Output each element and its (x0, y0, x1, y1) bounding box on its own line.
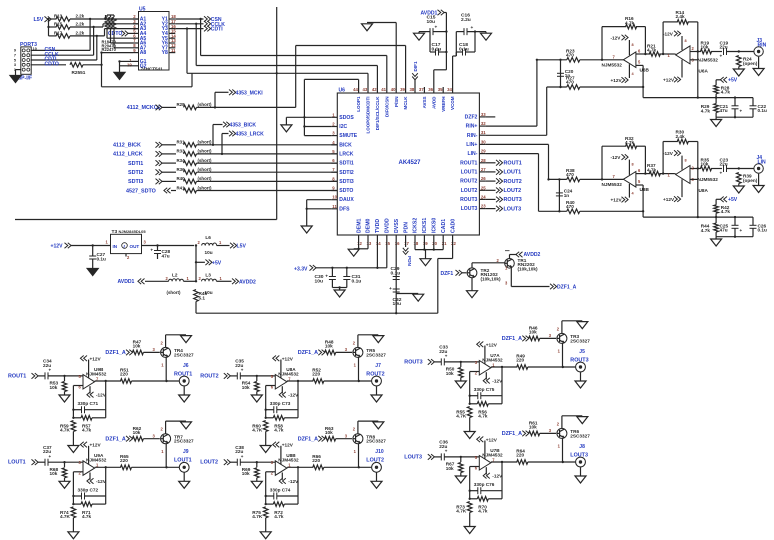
svg-text:LOUT2: LOUT2 (200, 460, 218, 466)
svg-text:15: 15 (385, 241, 390, 246)
svg-text:4.7k: 4.7k (701, 228, 711, 233)
svg-text:ROUT3: ROUT3 (504, 197, 522, 203)
svg-text:+5V: +5V (728, 78, 738, 84)
svg-text:DZF1_A: DZF1_A (105, 350, 125, 356)
svg-text:DZF1_A: DZF1_A (557, 285, 577, 291)
svg-text:(short): (short) (198, 149, 212, 154)
svg-text:LRCK: LRCK (339, 152, 353, 158)
svg-text:22u: 22u (720, 162, 728, 167)
svg-text:(short): (short) (198, 167, 212, 172)
svg-text:RIN: RIN (758, 42, 767, 48)
svg-text:L6: L6 (205, 235, 211, 240)
svg-text:10k: 10k (50, 385, 58, 390)
svg-text:VREFH: VREFH (441, 97, 446, 112)
svg-text:+: + (49, 454, 52, 459)
svg-text:(open): (open) (743, 61, 758, 66)
svg-text:+: + (445, 449, 448, 454)
svg-text:+12V: +12V (282, 443, 294, 448)
svg-text:22u: 22u (43, 449, 51, 454)
svg-text:2.2u: 2.2u (461, 17, 471, 23)
svg-text:P/SN: P/SN (394, 97, 399, 108)
svg-text:IN: IN (113, 244, 118, 249)
svg-text:4112_LRCK: 4112_LRCK (113, 152, 143, 158)
svg-text:22u: 22u (439, 349, 447, 354)
svg-text:U6B: U6B (640, 68, 650, 73)
svg-text:38: 38 (410, 87, 415, 92)
svg-text:R22470: R22470 (102, 47, 117, 52)
svg-text:0.1u: 0.1u (97, 257, 107, 262)
svg-text:LOUT1: LOUT1 (461, 170, 478, 176)
svg-text:4.7k: 4.7k (478, 509, 488, 514)
svg-text:3: 3 (14, 63, 16, 67)
svg-text:47u: 47u (720, 108, 728, 113)
svg-text:10k: 10k (242, 385, 250, 390)
svg-text:LOUT2: LOUT2 (504, 188, 522, 194)
svg-text:0.1u: 0.1u (352, 278, 362, 284)
svg-text:10k: 10k (242, 471, 250, 476)
svg-text:22u: 22u (235, 449, 243, 454)
svg-text:SDTI2: SDTI2 (128, 170, 143, 176)
svg-text:8: 8 (632, 43, 634, 47)
svg-text:+3.3V: +3.3V (294, 267, 308, 273)
svg-text:+12V: +12V (90, 356, 102, 361)
svg-text:220: 220 (516, 358, 524, 363)
svg-text:LIN+: LIN+ (466, 142, 477, 148)
svg-text:+12V: +12V (486, 437, 498, 442)
svg-text:LOUT3: LOUT3 (461, 206, 478, 212)
svg-text:ROUT2: ROUT2 (366, 371, 384, 377)
svg-text:43: 43 (363, 87, 368, 92)
svg-text:DZF1_A: DZF1_A (298, 350, 318, 356)
svg-text:CDTI: CDTI (211, 27, 223, 33)
svg-text:G2: G2 (140, 63, 147, 69)
svg-text:LOOP0/SDMCDTI: LOOP0/SDMCDTI (366, 97, 371, 134)
svg-text:AVDD: AVDD (431, 96, 436, 109)
svg-text:12: 12 (357, 241, 362, 246)
svg-text:LOUT1: LOUT1 (8, 460, 26, 466)
svg-text:+: + (241, 368, 244, 373)
svg-text:26: 26 (481, 176, 486, 181)
svg-text:(short): (short) (198, 102, 212, 107)
svg-text:8: 8 (632, 163, 634, 167)
svg-text:10k: 10k (325, 430, 333, 435)
svg-text:PDN: PDN (403, 222, 409, 233)
svg-text:10k: 10k (701, 45, 709, 50)
svg-text:2SC3327: 2SC3327 (174, 352, 194, 357)
svg-text:+: + (241, 454, 244, 459)
svg-text:4.7K: 4.7K (252, 428, 263, 433)
svg-text:10k: 10k (701, 162, 709, 167)
svg-text:330p C76: 330p C76 (474, 482, 495, 487)
svg-text:ICKS1: ICKS1 (422, 218, 428, 233)
svg-text:29: 29 (481, 149, 486, 154)
svg-text:8: 8 (685, 159, 687, 163)
svg-text:2SC3327: 2SC3327 (174, 439, 194, 444)
svg-text:10k: 10k (446, 466, 454, 471)
svg-text:+: + (49, 368, 52, 373)
svg-text:19: 19 (423, 241, 428, 246)
svg-text:14: 14 (376, 241, 381, 246)
svg-text:+: + (389, 286, 392, 291)
svg-text:22: 22 (451, 241, 456, 246)
svg-text:+: + (720, 171, 723, 176)
svg-text:+12V: +12V (282, 356, 294, 361)
svg-text:4353_LRCK: 4353_LRCK (236, 132, 265, 138)
svg-text:330p C75: 330p C75 (474, 387, 495, 392)
svg-text:J: J (123, 244, 125, 248)
svg-text:4.7k: 4.7k (478, 414, 488, 419)
svg-text:330p C73: 330p C73 (270, 401, 291, 406)
svg-text:2.4k: 2.4k (676, 134, 686, 139)
svg-text:2SC3327: 2SC3327 (366, 439, 386, 444)
svg-text:U6A: U6A (699, 69, 709, 74)
svg-text:4.7K: 4.7K (252, 514, 263, 519)
svg-text:+12V: +12V (486, 342, 498, 347)
svg-text:220: 220 (120, 372, 128, 377)
svg-text:VCOM: VCOM (450, 96, 455, 110)
svg-text:220: 220 (516, 453, 524, 458)
svg-text:10u: 10u (205, 250, 213, 255)
svg-text:ROUT1: ROUT1 (174, 371, 192, 377)
svg-text:10k: 10k (133, 430, 141, 435)
svg-text:9: 9 (14, 49, 16, 53)
svg-text:4.7k: 4.7k (274, 428, 284, 433)
svg-text:-12V: -12V (611, 155, 622, 160)
svg-text:16: 16 (395, 241, 400, 246)
svg-text:4112_BICK: 4112_BICK (113, 143, 141, 149)
svg-text:LIN: LIN (758, 159, 767, 165)
svg-text:-12V: -12V (663, 151, 674, 156)
svg-text:DEM1: DEM1 (356, 218, 362, 233)
svg-text:10u: 10u (427, 19, 435, 25)
svg-text:10k: 10k (529, 425, 537, 430)
svg-text:ROUT2: ROUT2 (504, 179, 522, 185)
svg-text:+: + (445, 354, 448, 359)
svg-text:U8B: U8B (640, 187, 650, 192)
svg-text:DZF1_A: DZF1_A (298, 437, 318, 443)
svg-text:ROUT1: ROUT1 (8, 373, 26, 379)
svg-text:44: 44 (353, 87, 358, 92)
svg-text:U6: U6 (339, 88, 346, 94)
svg-text:ROUT3: ROUT3 (570, 357, 588, 363)
svg-text:CDTO: CDTO (45, 62, 59, 68)
svg-text:DVDD: DVDD (385, 218, 391, 233)
svg-text:DEM0: DEM0 (366, 218, 372, 233)
svg-text:-12V: -12V (611, 36, 622, 41)
svg-text:DZF1_A: DZF1_A (105, 437, 125, 443)
svg-text:0.1u: 0.1u (432, 47, 442, 53)
svg-text:(short): (short) (198, 176, 212, 181)
svg-text:4.7k: 4.7k (274, 514, 284, 519)
svg-text:SDTI3: SDTI3 (339, 179, 354, 185)
svg-text:J9: J9 (183, 449, 189, 455)
svg-text:0.1u: 0.1u (758, 108, 768, 113)
svg-text:PDN: PDN (407, 256, 412, 267)
svg-text:L5V: L5V (237, 244, 247, 250)
svg-text:42: 42 (372, 87, 377, 92)
svg-text:NJM5532: NJM5532 (602, 63, 623, 68)
svg-text:4.7k: 4.7k (721, 90, 731, 95)
svg-text:LOUT3: LOUT3 (504, 206, 522, 212)
svg-text:LOOP1: LOOP1 (356, 96, 361, 112)
svg-text:4.7K: 4.7K (456, 509, 467, 514)
svg-text:A8: A8 (140, 50, 147, 56)
svg-text:220: 220 (312, 372, 320, 377)
svg-text:(open): (open) (743, 178, 758, 183)
svg-text:+12V: +12V (51, 244, 64, 250)
svg-text:CAD1: CAD1 (441, 219, 447, 233)
svg-text:LOUT2: LOUT2 (461, 188, 478, 194)
svg-text:AK4527: AK4527 (399, 160, 422, 166)
svg-text:J5: J5 (579, 349, 585, 355)
svg-text:1n: 1n (564, 193, 570, 198)
svg-text:4.7k: 4.7k (721, 209, 731, 214)
svg-text:DZF1: DZF1 (441, 271, 454, 277)
svg-text:+12V: +12V (663, 197, 675, 202)
svg-text:31: 31 (481, 130, 486, 135)
svg-text:470: 470 (566, 172, 574, 177)
svg-text:28: 28 (481, 158, 486, 163)
svg-text:(short): (short) (198, 185, 212, 190)
svg-text:LOUT2: LOUT2 (366, 458, 384, 464)
svg-text:NJM5532: NJM5532 (698, 177, 719, 182)
svg-text:BICK: BICK (339, 142, 352, 148)
svg-text:NJM2845DL05: NJM2845DL05 (119, 229, 147, 234)
svg-text:4.7K: 4.7K (60, 428, 71, 433)
svg-text:+: + (471, 25, 474, 30)
svg-text:+: + (150, 248, 153, 253)
svg-text:40: 40 (391, 87, 396, 92)
svg-text:36: 36 (428, 87, 433, 92)
svg-text:AVSS: AVSS (422, 97, 427, 109)
svg-text:R13: R13 (54, 14, 63, 19)
svg-text:330p C74: 330p C74 (270, 487, 291, 492)
svg-text:10k: 10k (325, 344, 333, 349)
svg-text:+12V: +12V (90, 443, 102, 448)
svg-text:25: 25 (481, 185, 486, 190)
svg-text:SMUTE: SMUTE (339, 133, 357, 139)
svg-text:27: 27 (481, 167, 486, 172)
svg-text:4.7k: 4.7k (82, 514, 92, 519)
svg-text:22u: 22u (439, 444, 447, 449)
svg-text:OUT: OUT (130, 244, 140, 249)
svg-text:7: 7 (14, 54, 16, 58)
svg-text:11: 11 (332, 204, 337, 209)
svg-text:J8: J8 (579, 444, 585, 450)
svg-text:I2C: I2C (339, 124, 347, 130)
svg-text:DIF1/SCL/CCLK: DIF1/SCL/CCLK (375, 96, 380, 131)
svg-text:AVDD2: AVDD2 (524, 252, 541, 258)
svg-text:220: 220 (120, 458, 128, 463)
svg-text:4.7k: 4.7k (82, 428, 92, 433)
svg-text:DZF2: DZF2 (465, 115, 478, 121)
svg-text:SDTO: SDTO (339, 188, 353, 194)
svg-text:+12V: +12V (611, 78, 623, 83)
svg-text:4.7k: 4.7k (647, 48, 657, 53)
svg-text:10k: 10k (50, 471, 58, 476)
svg-text:U8A: U8A (699, 188, 709, 193)
svg-text:-12V: -12V (663, 32, 674, 37)
svg-text:17: 17 (404, 241, 409, 246)
svg-text:0.1u: 0.1u (459, 47, 469, 53)
svg-text:NJM5532: NJM5532 (698, 58, 719, 63)
svg-text:LOUT3: LOUT3 (404, 454, 422, 460)
svg-text:220: 220 (312, 458, 320, 463)
svg-text:CAD0: CAD0 (450, 219, 456, 233)
svg-text:41: 41 (381, 87, 386, 92)
svg-text:330p C71: 330p C71 (78, 401, 99, 406)
svg-text:+: + (740, 228, 743, 233)
svg-text:+12V: +12V (611, 198, 623, 203)
svg-text:37: 37 (419, 87, 424, 92)
svg-text:(10k,10k): (10k,10k) (518, 267, 539, 272)
svg-text:20: 20 (432, 241, 437, 246)
svg-text:5: 5 (14, 58, 16, 62)
svg-text:U5: U5 (139, 7, 146, 13)
svg-text:21: 21 (442, 241, 447, 246)
svg-text:4.7K: 4.7K (456, 414, 467, 419)
svg-text:30: 30 (481, 139, 486, 144)
svg-text:DIF1: DIF1 (413, 61, 418, 72)
svg-text:R17: R17 (54, 31, 63, 36)
svg-text:ROUT3: ROUT3 (460, 197, 477, 203)
svg-text:T3: T3 (112, 229, 118, 235)
svg-text:+: + (325, 274, 328, 279)
svg-text:DZF1_A: DZF1_A (502, 336, 522, 342)
svg-text:+5V: +5V (728, 197, 738, 203)
svg-text:RIN-: RIN- (467, 133, 478, 139)
svg-text:(short): (short) (198, 158, 212, 163)
svg-text:AVDD1: AVDD1 (118, 279, 135, 285)
svg-text:18: 18 (414, 241, 419, 246)
svg-text:2SC3327: 2SC3327 (366, 352, 386, 357)
svg-text:NJM5532: NJM5532 (602, 182, 623, 187)
svg-text:+5V: +5V (212, 260, 222, 266)
svg-text:22u: 22u (720, 45, 728, 50)
svg-text:(short): (short) (167, 290, 181, 295)
svg-text:ICKS2: ICKS2 (413, 218, 419, 233)
svg-text:ROUT1: ROUT1 (504, 161, 522, 167)
svg-text:ROUT2: ROUT2 (460, 179, 477, 185)
svg-text:470: 470 (566, 80, 574, 85)
svg-text:DZF1_A: DZF1_A (502, 431, 522, 437)
svg-text:47u: 47u (162, 254, 170, 259)
svg-text:10k: 10k (446, 371, 454, 376)
svg-text:ROUT3: ROUT3 (404, 359, 422, 365)
svg-text:AVDD2: AVDD2 (239, 279, 256, 285)
svg-text:33: 33 (481, 112, 486, 117)
svg-text:2.4k: 2.4k (676, 14, 686, 19)
svg-text:23: 23 (481, 204, 486, 209)
svg-text:2.2k: 2.2k (76, 31, 85, 36)
svg-text:19: 19 (127, 62, 132, 67)
svg-text:24: 24 (481, 194, 486, 199)
svg-text:34: 34 (447, 87, 452, 92)
svg-text:330p C72: 330p C72 (78, 487, 99, 492)
svg-text:4.7K: 4.7K (60, 514, 71, 519)
svg-text:ICKS0: ICKS0 (432, 218, 438, 233)
svg-text:4.7k: 4.7k (647, 167, 657, 172)
svg-text:10: 10 (332, 195, 337, 200)
svg-text:(short): (short) (198, 140, 212, 145)
svg-text:J7: J7 (375, 363, 381, 369)
svg-text:DVSS: DVSS (394, 218, 400, 233)
svg-text:10u: 10u (315, 278, 323, 284)
svg-text:DAUX: DAUX (339, 197, 354, 203)
svg-text:2.2k: 2.2k (76, 22, 85, 27)
svg-text:LOUT3: LOUT3 (570, 452, 588, 458)
svg-text:L5V: L5V (34, 17, 44, 23)
svg-text:4353_MCKI: 4353_MCKI (236, 90, 264, 96)
svg-text:470: 470 (566, 204, 574, 209)
svg-text:SDTI2: SDTI2 (339, 170, 354, 176)
svg-text:35: 35 (438, 87, 443, 92)
svg-text:2SC3327: 2SC3327 (570, 433, 590, 438)
svg-text:11: 11 (171, 48, 176, 53)
svg-text:10k: 10k (133, 344, 141, 349)
svg-text:4527_SDTO: 4527_SDTO (126, 188, 156, 194)
svg-text:0.1u: 0.1u (758, 228, 768, 233)
svg-text:10k: 10k (529, 330, 537, 335)
svg-text:8: 8 (685, 39, 687, 43)
svg-text:47u: 47u (720, 228, 728, 233)
svg-text:R15: R15 (54, 22, 63, 27)
svg-text:J6: J6 (183, 363, 189, 369)
svg-text:5.1: 5.1 (199, 295, 206, 300)
svg-text:ROUT1: ROUT1 (460, 160, 477, 166)
svg-text:4353_BICK: 4353_BICK (230, 123, 257, 129)
svg-text:(10k,10k): (10k,10k) (481, 277, 502, 282)
svg-text:1n: 1n (565, 73, 571, 78)
svg-text:RIN+: RIN+ (466, 124, 478, 130)
svg-text:J10: J10 (375, 449, 384, 455)
svg-text:L3: L3 (205, 273, 211, 278)
svg-text:39: 39 (400, 87, 405, 92)
svg-text:4.7k: 4.7k (625, 20, 635, 25)
svg-text:DIF0/CSN: DIF0/CSN (384, 97, 389, 118)
svg-text:22u: 22u (235, 363, 243, 368)
svg-text:LOUT1: LOUT1 (504, 170, 522, 176)
svg-text:SDOS: SDOS (339, 115, 354, 121)
svg-text:SDTI3: SDTI3 (128, 179, 143, 185)
svg-text:+12V: +12V (663, 78, 675, 83)
svg-text:R2551: R2551 (72, 70, 86, 75)
svg-text:TVDD: TVDD (375, 219, 381, 233)
svg-text:4.7k: 4.7k (625, 140, 635, 145)
svg-text:LIN-: LIN- (467, 151, 477, 157)
svg-text:32: 32 (481, 121, 486, 126)
svg-text:L2: L2 (172, 273, 178, 278)
svg-text:2.2k: 2.2k (76, 14, 85, 19)
svg-text:+: + (740, 109, 743, 114)
svg-text:+: + (720, 54, 723, 59)
svg-text:+: + (435, 24, 438, 29)
svg-text:LOUT1: LOUT1 (174, 458, 192, 464)
svg-text:470: 470 (566, 53, 574, 58)
svg-text:4.7k: 4.7k (701, 108, 711, 113)
svg-text:MCLK: MCLK (403, 96, 408, 110)
svg-text:SDTI1: SDTI1 (128, 161, 143, 167)
svg-text:SDTI1: SDTI1 (339, 161, 354, 167)
svg-text:Y8: Y8 (162, 50, 168, 56)
svg-text:10u: 10u (393, 301, 401, 307)
svg-text:13: 13 (367, 241, 372, 246)
svg-text:2SC3327: 2SC3327 (570, 338, 590, 343)
svg-text:0.1u: 0.1u (391, 270, 401, 276)
svg-text:ROUT2: ROUT2 (200, 373, 218, 379)
svg-text:22u: 22u (43, 363, 51, 368)
svg-text:DFS: DFS (339, 206, 350, 212)
